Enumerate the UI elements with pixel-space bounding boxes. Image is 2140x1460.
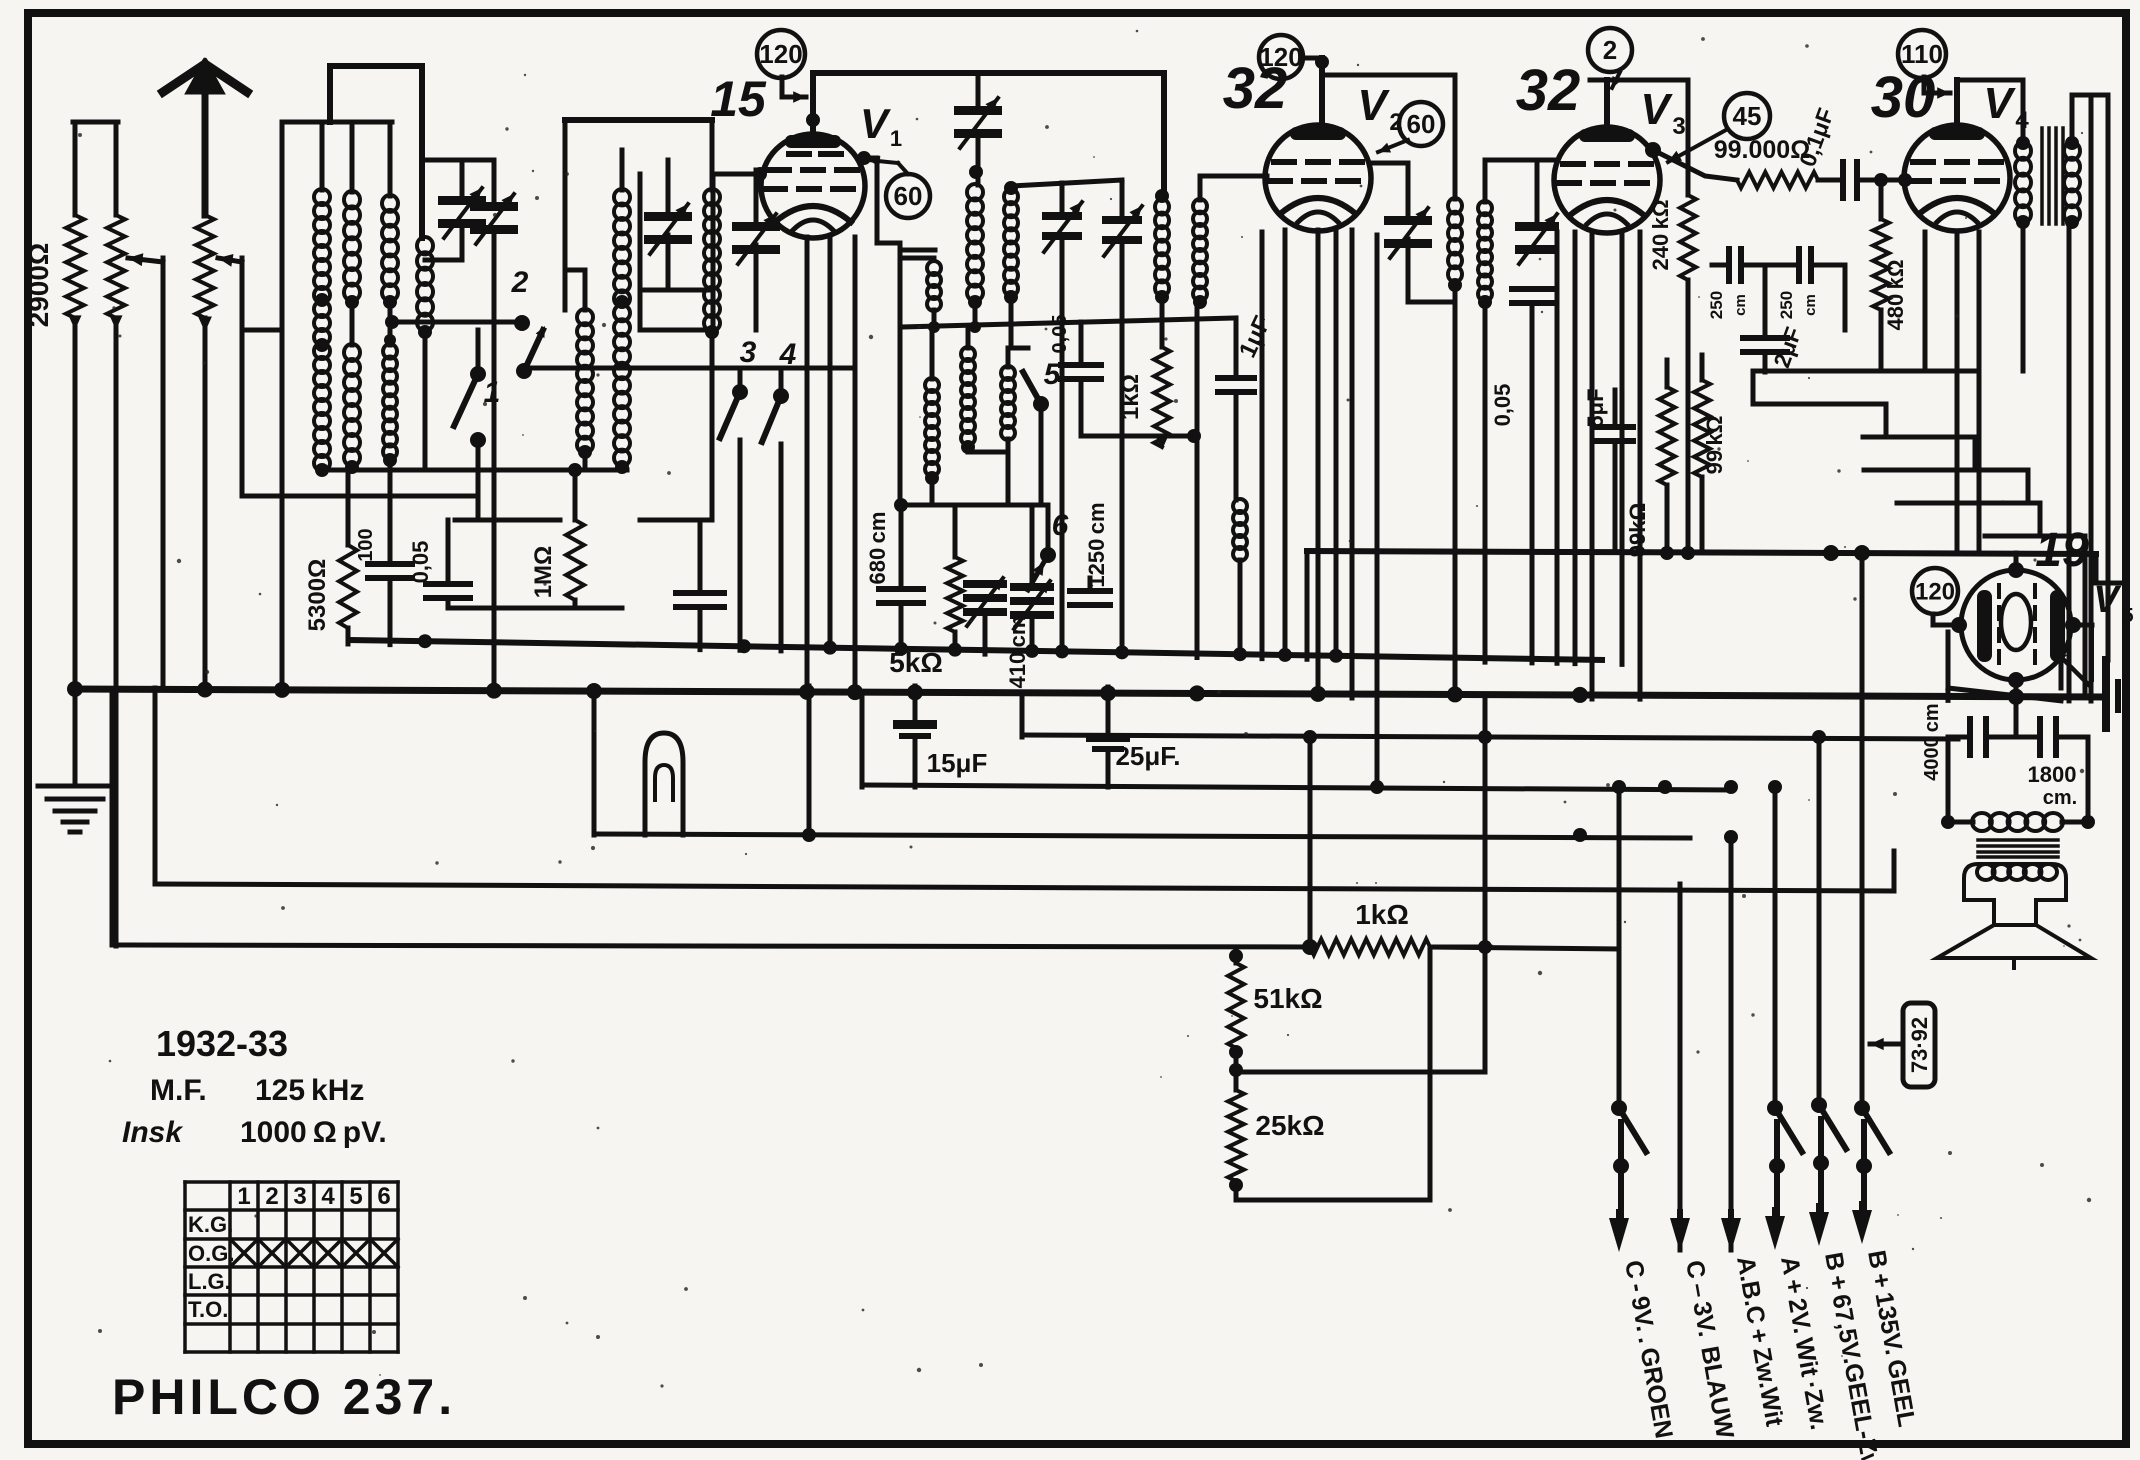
svg-text:5: 5 [1044,358,1062,391]
svg-text:V: V [1357,81,1390,130]
svg-text:32: 32 [1516,58,1581,123]
svg-text:99 kΩ: 99 kΩ [1702,416,1727,475]
svg-text:4: 4 [321,1183,335,1210]
svg-text:O.G.: O.G. [188,1241,234,1266]
svg-text:120: 120 [759,39,802,69]
svg-text:4000 cm: 4000 cm [1921,703,1943,780]
svg-text:M.F.: M.F. [150,1074,207,1107]
svg-text:30: 30 [1871,65,1936,130]
svg-text:51kΩ: 51kΩ [1253,983,1322,1014]
svg-text:1932-33: 1932-33 [156,1023,288,1064]
svg-text:3: 3 [293,1183,306,1210]
svg-text:3: 3 [740,336,757,369]
svg-text:73·92: 73·92 [1907,1017,1932,1073]
svg-text:120: 120 [1915,578,1955,605]
svg-text:15: 15 [710,71,767,127]
svg-text:680 cm: 680 cm [865,512,890,585]
svg-text:5: 5 [349,1183,362,1210]
svg-text:V: V [1640,85,1673,134]
svg-text:125 kHz: 125 kHz [255,1074,364,1107]
svg-text:5300Ω: 5300Ω [304,559,331,632]
svg-text:60: 60 [894,181,923,211]
svg-text:32: 32 [1223,56,1288,121]
svg-text:480 kΩ: 480 kΩ [1883,260,1908,331]
svg-text:cm: cm [1732,294,1749,316]
svg-text:1: 1 [890,126,902,151]
svg-text:60: 60 [1407,109,1436,139]
svg-text:25kΩ: 25kΩ [1255,1110,1324,1141]
svg-text:1250 cm: 1250 cm [1084,502,1109,587]
svg-text:3: 3 [1672,113,1685,140]
svg-text:T.O.: T.O. [188,1297,228,1322]
svg-text:240 kΩ: 240 kΩ [1648,200,1673,271]
svg-text:45: 45 [1733,101,1762,131]
svg-text:cm: cm [1802,294,1819,316]
svg-text:L.G.: L.G. [188,1269,231,1294]
svg-text:0,05: 0,05 [1490,384,1515,427]
svg-text:2900Ω: 2900Ω [23,243,54,328]
svg-text:19: 19 [2035,524,2089,577]
svg-text:15μF: 15μF [927,748,988,778]
svg-text:250: 250 [1707,291,1726,319]
svg-text:1: 1 [237,1183,250,1210]
svg-text:cm.: cm. [2043,787,2077,809]
svg-text:1800: 1800 [2028,762,2077,787]
svg-text:2: 2 [511,266,529,299]
svg-text:V: V [2093,579,2121,621]
svg-text:100: 100 [355,528,377,561]
svg-text:V: V [1983,79,2016,128]
svg-text:5μF: 5μF [1583,388,1608,427]
svg-text:2: 2 [265,1183,278,1210]
svg-text:0,05: 0,05 [408,541,433,584]
svg-text:1MΩ: 1MΩ [530,546,557,599]
svg-text:2: 2 [1603,35,1617,65]
svg-text:PHILCO 237.: PHILCO 237. [112,1369,456,1425]
svg-text:5: 5 [2122,605,2133,627]
svg-text:1000 Ω pV.: 1000 Ω pV. [240,1116,387,1149]
svg-text:1kΩ: 1kΩ [1355,899,1409,930]
svg-text:25μF.: 25μF. [1115,741,1180,771]
svg-text:V: V [860,100,891,147]
svg-text:6: 6 [377,1183,390,1210]
svg-text:Insk: Insk [122,1116,183,1149]
svg-text:K.G.: K.G. [188,1212,233,1237]
svg-text:250: 250 [1777,291,1796,319]
